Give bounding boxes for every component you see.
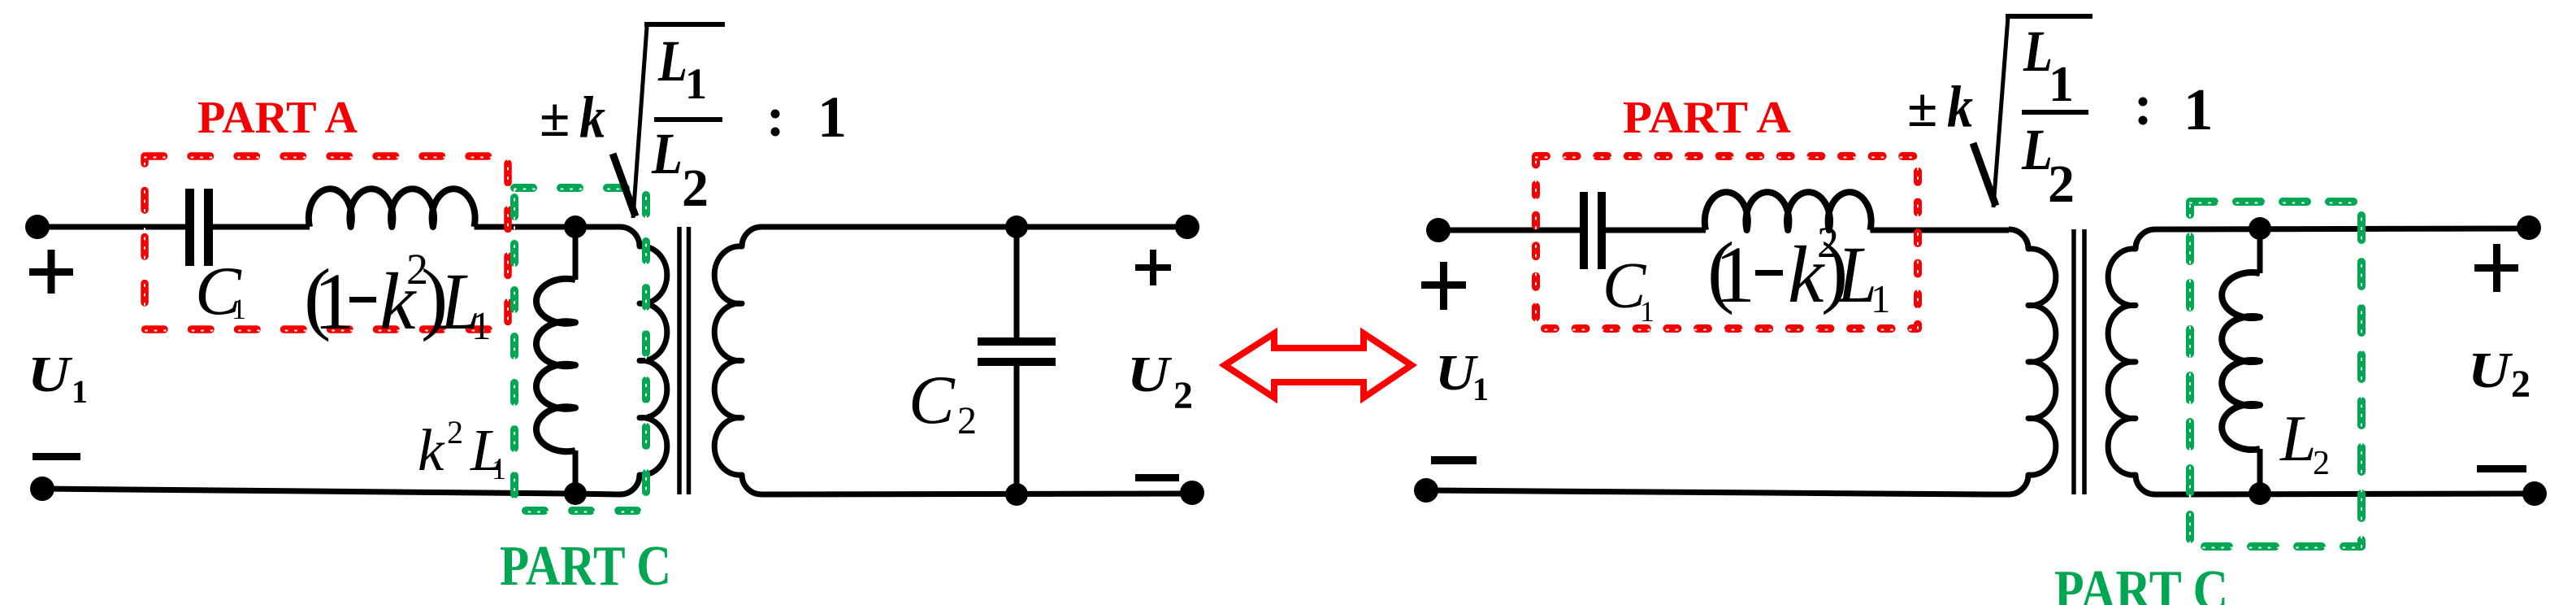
svg-text:1: 1 — [1472, 371, 1489, 407]
svg-text:U: U — [2468, 343, 2513, 398]
svg-text:1: 1 — [471, 303, 492, 348]
svg-text:1: 1 — [492, 453, 506, 485]
svg-text:2: 2 — [2313, 445, 2330, 482]
svg-text:L: L — [2279, 403, 2317, 475]
svg-text:k: k — [1947, 74, 1973, 140]
svg-text:1: 1 — [685, 59, 707, 108]
svg-text:C: C — [909, 362, 956, 438]
svg-text:1: 1 — [1715, 229, 1755, 320]
svg-text:1: 1 — [72, 373, 88, 410]
svg-text:1: 1 — [232, 293, 246, 325]
svg-text:k: k — [579, 85, 605, 150]
svg-text:PART A: PART A — [197, 93, 358, 143]
svg-text:±: ± — [540, 86, 570, 148]
svg-text:2: 2 — [2048, 155, 2075, 214]
svg-text:PART A: PART A — [1623, 93, 1792, 143]
svg-text:1: 1 — [1871, 276, 1891, 321]
svg-text:1: 1 — [2184, 76, 2214, 142]
svg-text:2: 2 — [1173, 374, 1193, 417]
svg-text:k: k — [418, 417, 445, 483]
svg-text:±: ± — [1907, 76, 1937, 138]
svg-text:U: U — [1127, 347, 1173, 403]
svg-text:1: 1 — [817, 85, 847, 150]
svg-text:1: 1 — [314, 256, 354, 346]
svg-text:2: 2 — [957, 399, 977, 442]
svg-text:PART C: PART C — [500, 535, 671, 598]
svg-text:U: U — [28, 347, 73, 403]
svg-text:L: L — [657, 28, 687, 94]
svg-text:1: 1 — [1640, 295, 1654, 328]
svg-text:2: 2 — [682, 159, 709, 218]
svg-text:PART C: PART C — [2054, 559, 2228, 605]
svg-text:L: L — [651, 121, 683, 186]
svg-text:1: 1 — [2049, 57, 2074, 112]
svg-text:2: 2 — [2511, 363, 2530, 406]
svg-text:2: 2 — [447, 414, 463, 450]
